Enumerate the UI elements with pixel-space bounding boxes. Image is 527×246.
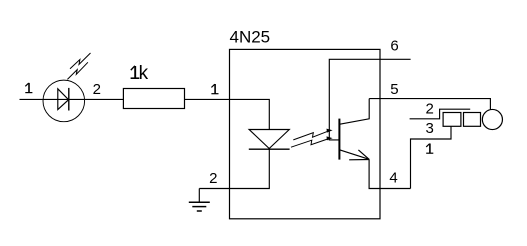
LED D1 cathode bar	[68, 88, 70, 111]
wire: through LED D1	[44, 98, 85, 100]
jack connector barrel	[482, 109, 502, 129]
phototransistor collector	[340, 99, 369, 125]
resistor R1 body	[123, 89, 184, 109]
internal LED triangle	[249, 130, 289, 149]
light coupling flash arrow upper	[293, 131, 328, 140]
phototransistor base bar	[338, 119, 340, 160]
wire: U1 pin 5 to jack barrel	[369, 99, 490, 110]
wire: U1 pin 6 to base	[329, 59, 410, 140]
svg-text:2: 2	[209, 170, 217, 187]
internal LED cathode bar	[249, 148, 290, 150]
wire: resistor R1 to U1 pin 1	[185, 98, 230, 100]
svg-text:4N25: 4N25	[230, 28, 271, 47]
svg-text:4: 4	[389, 170, 397, 187]
svg-text:k: k	[139, 63, 149, 84]
light coupling flash arrow lower	[291, 139, 328, 147]
svg-text:2: 2	[426, 101, 434, 118]
optocoupler U1 4N25 outline	[230, 49, 381, 218]
jack connector contact block 1	[443, 113, 461, 127]
emitter arrowhead barb upper	[358, 150, 369, 159]
light coupling arrowhead upper	[327, 129, 333, 133]
wire: U1 pin 4 to jack sleeve contact	[411, 126, 452, 188]
pin label 1 (LED anode node)	[25, 83, 32, 93]
wire: input lead at node 1	[20, 98, 44, 100]
jack connector contact block 2	[464, 113, 481, 127]
light coupling arrowhead lower	[327, 136, 333, 140]
LED D1 diode triangle	[58, 89, 69, 110]
label 1k: digit 1	[131, 66, 140, 79]
svg-text:6: 6	[390, 38, 398, 55]
connector pin label 1	[426, 144, 433, 154]
wire: U1 pin 1 to internal LED anode	[230, 99, 270, 129]
wire: jack tip contact	[410, 109, 471, 119]
LED D1 light flash arrow upper	[70, 53, 91, 69]
phototransistor emitter	[340, 150, 369, 159]
LED D1 light flash arrow lower	[67, 62, 88, 79]
pin label 1 (U1 pin 1)	[211, 84, 218, 94]
LED D1 circle	[43, 80, 85, 122]
wire: LED D1 to resistor R1	[85, 98, 123, 100]
svg-text:2: 2	[93, 81, 101, 98]
wire: internal LED cathode to U1 pin 2 and ground	[199, 149, 269, 189]
emitter arrowhead barb lower	[349, 159, 369, 161]
ground symbol	[189, 189, 210, 212]
svg-text:3: 3	[426, 120, 434, 137]
svg-text:5: 5	[390, 81, 398, 98]
wire: emitter to U1 pin 4	[369, 159, 410, 188]
